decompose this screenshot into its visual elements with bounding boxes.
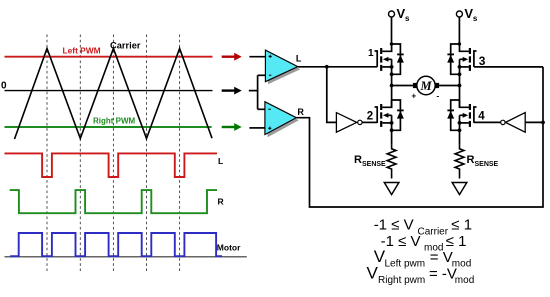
comparator U2 plus input marker <box>268 127 271 130</box>
svg-text:R: R <box>467 154 475 166</box>
node motor right <box>458 84 462 88</box>
label Left PWM <box>63 45 101 55</box>
node motor left <box>390 84 394 88</box>
label Rsense left <box>354 154 386 168</box>
label 3 <box>479 54 486 68</box>
svg-text:R: R <box>297 107 304 117</box>
vertical dashed guide line 4 <box>146 35 148 272</box>
svg-text:Right PWM: Right PWM <box>93 117 136 126</box>
svg-text:s: s <box>473 14 478 23</box>
Left PWM level line (red) <box>5 56 213 58</box>
comparator U1 plus input marker <box>269 55 272 58</box>
black arrow (carrier to comparators) <box>222 87 242 95</box>
svg-text:Left pwm: Left pwm <box>385 259 426 270</box>
label 2 <box>367 110 373 122</box>
label L <box>218 156 223 166</box>
wire L output to gate 1 <box>298 66 378 68</box>
zero reference line <box>5 90 213 92</box>
resistor Rsense left <box>387 145 396 179</box>
wire Q3 source to motor node <box>459 67 461 86</box>
vertical dashed guide line 2 <box>79 35 81 272</box>
vertical dashed guide line 3 <box>112 35 114 272</box>
transistor Q1 <box>375 44 392 71</box>
equation 1: -1 <= Vcarrier <= 1 <box>374 217 472 238</box>
node Q1 source <box>390 65 394 69</box>
svg-text:R: R <box>218 196 224 206</box>
wire L to inverter input <box>327 67 337 123</box>
wire Q1 source to motor node <box>391 67 393 86</box>
node D1 anode <box>390 72 394 76</box>
vertical dashed guide line 5 <box>179 35 181 272</box>
ground (left leg) <box>384 183 399 195</box>
svg-text:≤ 1: ≤ 1 <box>446 233 467 250</box>
label L (comparator output) <box>296 54 302 64</box>
carrier triangle waveform <box>15 49 213 140</box>
label Rsense right <box>467 154 499 168</box>
diode D2 (Q2 body diode) <box>392 100 404 130</box>
wire carrier to U2 minus <box>258 108 265 110</box>
transistor Q2 <box>375 100 392 127</box>
inverter X2 (right) <box>501 113 526 133</box>
svg-text:mod: mod <box>455 275 474 286</box>
node D4 anode <box>458 128 462 132</box>
label Right PWM <box>93 117 136 126</box>
svg-text:SENSE: SENSE <box>362 161 386 168</box>
transistor Q3 <box>460 44 477 71</box>
svg-text:= -V: = -V <box>429 265 457 282</box>
wire motor node to Q4 drain <box>459 86 461 108</box>
wire inverter X2 to gate 4 <box>474 121 501 123</box>
wire red level to U1 plus input <box>249 56 265 58</box>
diode D4 (Q4 body diode) <box>447 100 459 130</box>
wire motor right lead <box>439 85 459 87</box>
svg-text:-: - <box>437 92 440 101</box>
R PWM square waveform (green) <box>10 190 217 213</box>
svg-text:≤ 1: ≤ 1 <box>451 217 472 234</box>
wire R rail to inverter X2 input <box>525 121 543 123</box>
svg-text:V: V <box>367 263 379 282</box>
svg-text:Right pwm: Right pwm <box>378 275 425 286</box>
supply Vs (right) <box>456 11 462 44</box>
svg-text:= V: = V <box>430 249 453 266</box>
svg-text:0: 0 <box>1 81 7 92</box>
comparator U1 minus input marker <box>269 74 272 76</box>
wire carrier to U1 minus <box>258 74 266 76</box>
inverter X1 (left) <box>336 113 362 133</box>
node Q3 source <box>458 65 462 69</box>
svg-text:SENSE: SENSE <box>475 161 499 168</box>
Right PWM level line (green) <box>5 126 212 128</box>
vertical dashed guide line 1 <box>46 35 48 272</box>
motor minus terminal label <box>437 92 440 101</box>
motor waveform baseline <box>5 256 247 258</box>
wire Q2 source to Rsense <box>391 123 393 145</box>
svg-text:-1 ≤ V: -1 ≤ V <box>374 217 414 234</box>
label Motor <box>217 242 241 252</box>
motor M1 terminals <box>413 83 439 88</box>
svg-text:L: L <box>218 156 223 166</box>
motor plus terminal label <box>412 92 417 101</box>
transistor Q4 <box>460 100 477 127</box>
svg-text:4: 4 <box>478 110 485 122</box>
wire Q4 source to Rsense <box>459 123 461 145</box>
svg-text:R: R <box>354 154 362 166</box>
node R rail to inverter X2 <box>541 121 545 125</box>
node D2 anode <box>390 128 394 132</box>
supply Vs (left) <box>389 11 395 44</box>
resistor Rsense right <box>455 145 464 179</box>
wire motor left lead <box>392 85 413 87</box>
svg-text:Carrier: Carrier <box>418 226 449 237</box>
equation 2: -1 <= Vmod <= 1 <box>381 233 467 254</box>
svg-text:1: 1 <box>368 48 374 59</box>
node D3 cathode <box>458 42 461 45</box>
comparator U2 minus input marker <box>268 108 271 110</box>
wire R output <box>296 67 543 207</box>
label Vs left <box>397 6 411 23</box>
node D1 cathode <box>390 42 393 45</box>
wire carrier stub <box>249 90 258 92</box>
comparator U2 (R) <box>265 102 299 138</box>
diode D3 (Q3 body diode) <box>447 44 459 74</box>
wire R rail to gate 3 <box>474 66 543 68</box>
wire carrier vertical branch <box>257 75 259 109</box>
svg-text:Carrier: Carrier <box>110 41 141 51</box>
ground (right leg) <box>452 183 467 195</box>
label 4 <box>478 110 485 122</box>
svg-text:-1 ≤ V: -1 ≤ V <box>381 233 421 250</box>
red arrow (Left PWM to comparator) <box>222 53 242 61</box>
svg-text:s: s <box>405 14 410 23</box>
svg-text:M: M <box>419 79 432 93</box>
label Vs right <box>464 6 478 23</box>
wire green level to U2 plus <box>249 127 265 129</box>
label 1 <box>368 48 374 59</box>
label 0 <box>1 81 7 92</box>
wire motor node to Q2 drain <box>391 86 393 108</box>
wire inverter X1 to gate 2 <box>362 121 377 123</box>
L PWM square waveform (red) <box>5 153 218 177</box>
diode D1 (Q1 body diode) <box>392 44 404 74</box>
node L junction <box>325 65 329 69</box>
svg-text:+: + <box>412 92 417 101</box>
motor M1 body <box>417 76 435 94</box>
equation 3: Vleftpwm = Vmod <box>374 247 472 270</box>
svg-text:L: L <box>296 54 302 64</box>
svg-text:2: 2 <box>367 110 373 122</box>
svg-text:3: 3 <box>479 54 486 68</box>
label Carrier <box>110 41 141 51</box>
svg-text:Motor: Motor <box>217 242 241 252</box>
label R <box>218 196 224 206</box>
node D3 anode <box>458 72 462 76</box>
Motor voltage waveform (blue) <box>10 233 222 256</box>
equation 4: Vrightpwm = -Vmod <box>367 263 475 286</box>
svg-text:Left PWM: Left PWM <box>63 45 101 55</box>
green arrow (Right PWM to comparator) <box>222 123 242 131</box>
node Q4 source <box>458 121 462 125</box>
label R (comparator output) <box>297 107 304 117</box>
node Q2 source <box>390 121 394 125</box>
comparator U1 (L) <box>265 50 300 84</box>
